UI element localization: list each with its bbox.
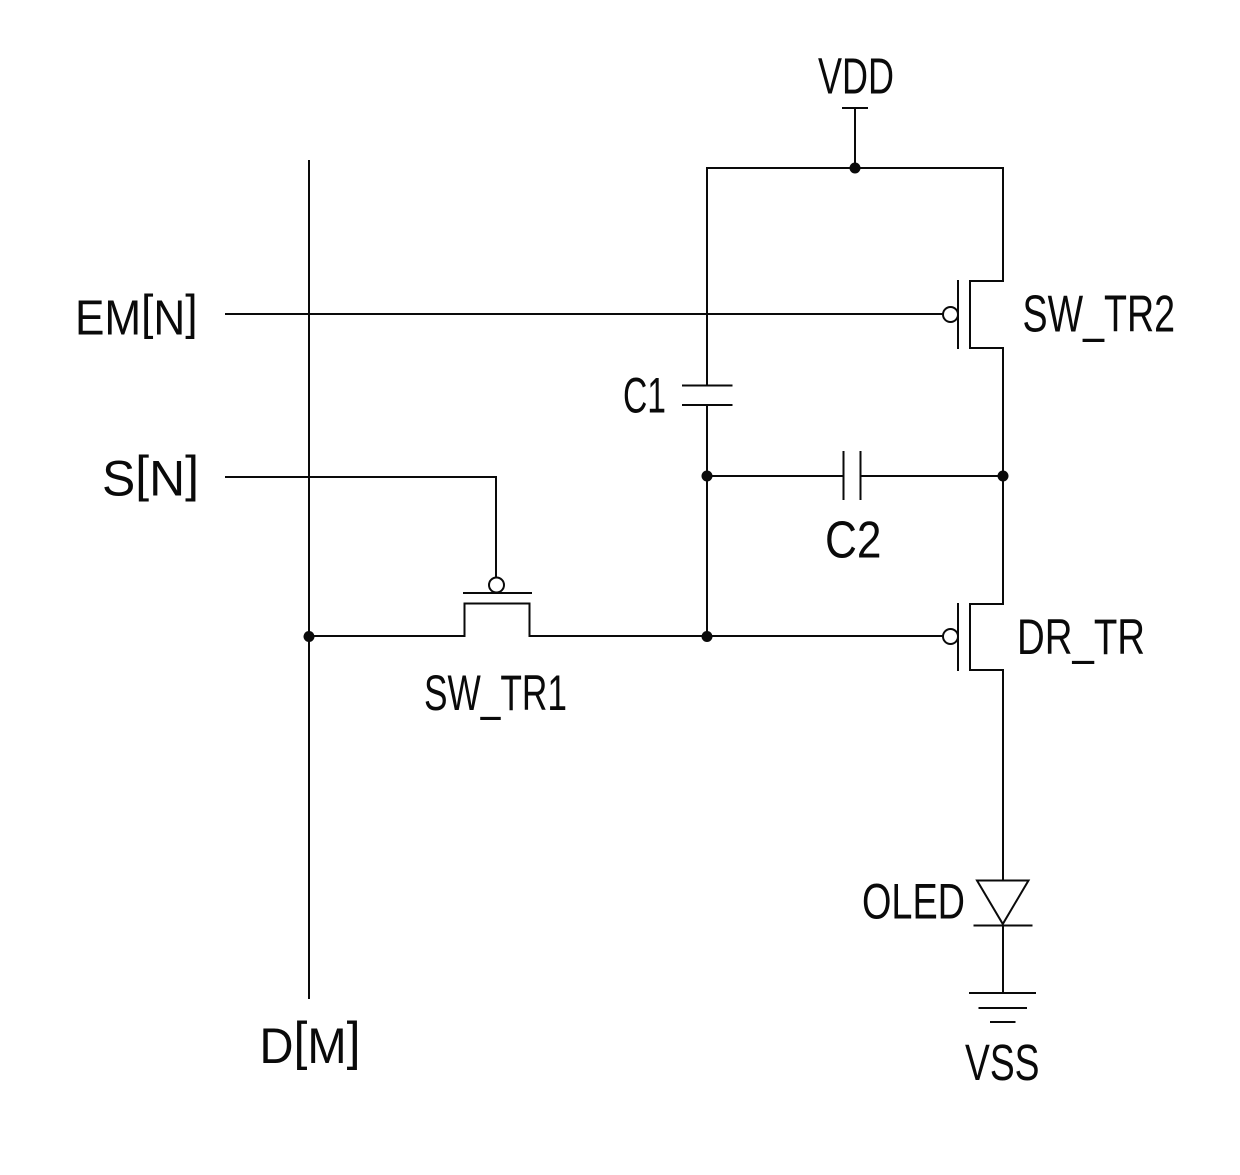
capacitor C1 top lead — [706, 168, 708, 386]
VDD terminal bar — [843, 107, 867, 109]
wire EM[N] row — [226, 313, 942, 315]
svg-text:OLED: OLED — [862, 873, 965, 930]
wire C2 left lead — [707, 475, 844, 477]
svg-text:DR_TR: DR_TR — [1017, 608, 1145, 665]
svg-text:C2: C2 — [825, 511, 882, 569]
transistor SW_TR2 gate bar — [957, 281, 959, 348]
transistor SW_TR1 channel and source/drain — [465, 604, 530, 637]
wire top rail — [707, 167, 1003, 169]
wire VDD stem — [854, 108, 856, 168]
diode OLED cathode bar — [975, 925, 1032, 927]
capacitor C2 plates — [844, 452, 861, 499]
wire right rail middle — [1002, 348, 1004, 604]
transistor SW_TR2 gate bubble — [943, 307, 958, 322]
transistor SW_TR2 channel and source/drain — [970, 281, 1003, 348]
wire right rail lower — [1002, 670, 1004, 881]
ground VSS symbol — [970, 993, 1035, 1022]
svg-text:SW_TR2: SW_TR2 — [1023, 285, 1176, 343]
junction dot at C2 wire right — [998, 471, 1009, 482]
wire OLED to ground — [1002, 926, 1004, 994]
wire S[N] row — [226, 477, 496, 577]
svg-text:S[N]: S[N] — [102, 446, 199, 507]
capacitor C1 plates — [683, 386, 732, 406]
wire C2 right lead — [861, 475, 1004, 477]
wire right rail upper — [1002, 168, 1004, 281]
svg-text:SW_TR1: SW_TR1 — [424, 665, 567, 721]
transistor DR_TR channel and source/drain — [970, 604, 1003, 670]
junction dot at node A / bottom row — [702, 631, 713, 642]
diode OLED anode triangle — [977, 881, 1029, 925]
junction dot at node A / C2 wire left — [702, 471, 713, 482]
capacitor C1 bottom lead — [706, 405, 708, 636]
wire bottom row right segment — [530, 635, 943, 637]
wire bottom row left segment — [309, 635, 465, 637]
junction dot at VDD/top rail — [850, 163, 861, 174]
junction dot at D[M] / bottom row — [304, 631, 315, 642]
svg-text:VSS: VSS — [965, 1034, 1040, 1091]
wire D[M] data line — [308, 161, 310, 998]
transistor SW_TR1 gate bubble — [489, 578, 504, 593]
transistor SW_TR1 gate bar — [464, 592, 531, 594]
transistor DR_TR gate bar — [957, 604, 959, 670]
svg-text:D[M]: D[M] — [260, 1012, 361, 1074]
svg-text:EM[N]: EM[N] — [75, 286, 198, 346]
svg-text:C1: C1 — [623, 368, 666, 424]
svg-text:VDD: VDD — [818, 48, 894, 105]
transistor DR_TR gate bubble — [943, 629, 958, 644]
